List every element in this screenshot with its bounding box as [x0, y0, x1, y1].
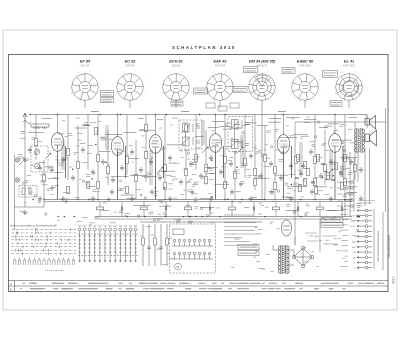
- resistor: [185, 168, 188, 175]
- svg-text:4: 4: [312, 100, 313, 102]
- capacitor: [269, 161, 273, 167]
- svg-text:5: 5: [80, 100, 81, 102]
- capacitor: [61, 157, 65, 163]
- terminal TA: [344, 193, 353, 196]
- resistor: [354, 164, 357, 171]
- resistor: [264, 154, 267, 161]
- switch label: [119, 225, 122, 227]
- resistor: [67, 148, 70, 155]
- terminal TA1: [357, 256, 372, 259]
- resistor: [324, 164, 327, 171]
- resistor: [164, 164, 167, 171]
- wire speaker feed: [362, 115, 367, 141]
- capacitor: [50, 167, 54, 173]
- svg-text:5: 5: [215, 100, 216, 102]
- capacitor: [259, 173, 263, 179]
- resistor: [274, 166, 277, 173]
- junction: [334, 216, 336, 218]
- resistor: [344, 154, 347, 161]
- switch label: [93, 225, 96, 227]
- svg-text:3: 3: [99, 91, 100, 93]
- capacitor: [150, 189, 154, 195]
- wire vertical: [164, 115, 166, 200]
- svg-text:7: 7: [206, 81, 207, 83]
- wire right feeds: [345, 148, 370, 217]
- speaker LS1: [365, 116, 376, 130]
- wire rectifier feed: [319, 219, 321, 252]
- resistor: [244, 158, 247, 165]
- capacitor: [190, 189, 194, 195]
- net label: [181, 111, 189, 113]
- resistor: [224, 156, 227, 163]
- triode/pentode section T6: [329, 134, 341, 153]
- svg-text:7: 7: [291, 81, 292, 83]
- IF transformer (dashed box): [228, 117, 253, 152]
- resistor: [224, 181, 227, 188]
- resistor: [314, 178, 317, 185]
- svg-text:EM 34 (EM 35): EM 34 (EM 35): [249, 59, 276, 64]
- capacitor: [28, 147, 32, 153]
- svg-text:2: 2: [319, 80, 320, 82]
- svg-text:62FF 5 62S: 62FF 5 62S: [343, 65, 355, 67]
- resistor: [126, 186, 129, 193]
- dial table symbol row: [14, 258, 75, 266]
- tube V4 EAF 42 envelope: [206, 72, 236, 103]
- wire vertical: [344, 115, 346, 200]
- triode/pentode section T3: [149, 135, 161, 154]
- junction: [155, 114, 157, 116]
- label box: [321, 223, 343, 228]
- capacitor: [349, 159, 353, 165]
- wire AVC rail a: [44, 199, 352, 201]
- svg-text:Netzanschlussspannungen: Netzanschlussspannungen: [376, 230, 380, 262]
- resistor: [254, 178, 257, 185]
- junction: [195, 216, 197, 218]
- svg-text:8: 8: [170, 72, 171, 74]
- tube V7 EL 41 envelope: [335, 72, 365, 103]
- svg-text:3010: 3010: [392, 276, 396, 284]
- dial cord table: [12, 228, 77, 255]
- svg-text:1: 1: [354, 72, 355, 74]
- label box small: [230, 103, 239, 108]
- switch label: [104, 225, 107, 227]
- resistor: [304, 178, 307, 185]
- wire vertical: [67, 115, 69, 181]
- IF transformer (dashed box): [179, 120, 202, 149]
- resistor: [164, 182, 167, 189]
- junction: [264, 216, 266, 218]
- dial lamp 1: [15, 158, 19, 162]
- capacitor: [189, 161, 193, 167]
- label box: [238, 251, 259, 256]
- net label: [91, 111, 99, 113]
- voltage label box (Anode 230V): [233, 87, 247, 93]
- wire tube lead: [84, 100, 86, 108]
- capacitor: [359, 167, 363, 173]
- rectifier labels: [305, 233, 338, 244]
- wire vertical: [234, 151, 236, 200]
- resistor: [205, 176, 208, 183]
- svg-text:6: 6: [291, 93, 292, 95]
- wire vertical: [354, 122, 356, 180]
- capacitor: [139, 167, 143, 173]
- svg-text:2: 2: [234, 80, 235, 82]
- junction: [126, 216, 128, 218]
- svg-text:6,3V~: 6,3V~: [351, 211, 357, 213]
- wire top-right rail: [295, 121, 386, 123]
- ground: [209, 196, 214, 201]
- terminal S: [357, 235, 372, 238]
- wire vertical: [185, 149, 187, 200]
- svg-text:62B 62A: 62B 62A: [172, 64, 181, 67]
- capacitor: [239, 181, 243, 187]
- resistor: [145, 124, 148, 131]
- resistor: [77, 161, 80, 168]
- label box: [238, 245, 259, 250]
- capacitor: [329, 159, 333, 165]
- capacitor: [270, 189, 274, 195]
- svg-text:1: 1: [310, 72, 311, 74]
- push-button switch bank: [78, 228, 138, 262]
- resistor: [195, 154, 198, 161]
- svg-text:E: E: [10, 287, 12, 291]
- terminal TA2: [357, 251, 372, 254]
- terminal 125V~: [357, 220, 372, 223]
- wire EM34 drop: [261, 100, 263, 199]
- wire vertical: [314, 115, 316, 200]
- output stage components: [295, 154, 343, 193]
- switch unit (dashed box): [170, 224, 216, 273]
- svg-text:6: 6: [116, 93, 117, 95]
- wire vertical: [126, 115, 128, 176]
- junction: [57, 114, 59, 116]
- svg-text:EAF 42: EAF 42: [213, 59, 227, 64]
- switch arrow: [237, 147, 243, 153]
- svg-text:von vorne gesehen: von vorne gesehen: [45, 270, 64, 272]
- label box: [321, 218, 343, 223]
- wire transformer leads: [273, 237, 295, 265]
- wire left stub rail: [14, 206, 44, 208]
- ground: [130, 196, 135, 201]
- capacitor: [111, 177, 115, 183]
- resistor: [87, 181, 90, 188]
- svg-text:7: 7: [162, 81, 163, 83]
- resistor: [95, 127, 98, 134]
- wire vertical: [215, 115, 217, 135]
- svg-text:4: 4: [356, 100, 357, 102]
- wire vertical: [155, 115, 157, 136]
- svg-text:3: 3: [234, 91, 235, 93]
- svg-text:8: 8: [79, 72, 80, 74]
- svg-text:2: 2: [276, 80, 277, 82]
- svg-text:7: 7: [248, 81, 249, 83]
- terminal 0: [357, 230, 372, 233]
- junction: [77, 199, 79, 201]
- wire vertical: [334, 115, 336, 135]
- wire vertical: [324, 130, 326, 185]
- capacitor: [91, 169, 95, 175]
- wire vertical: [294, 122, 296, 245]
- wire vertical: [35, 115, 37, 161]
- svg-text:4: 4: [137, 100, 138, 102]
- wire tube lead: [175, 100, 177, 108]
- junction: [314, 199, 316, 201]
- resistor: [97, 154, 100, 161]
- capacitor: [158, 175, 162, 181]
- switch arrow: [19, 159, 25, 165]
- switch label: [78, 225, 81, 227]
- resistor: [35, 138, 38, 145]
- capacitor: [101, 159, 105, 165]
- tuning capacitor: [31, 146, 48, 172]
- trap circuit box: [19, 186, 37, 198]
- svg-text:6: 6: [335, 93, 336, 95]
- component value labels: [18, 117, 363, 271]
- svg-text:EC 92: EC 92: [125, 59, 137, 64]
- svg-text:5: 5: [257, 100, 258, 102]
- switch label: [83, 225, 86, 227]
- ground: [91, 196, 96, 201]
- resistor: [97, 181, 100, 188]
- svg-text:3: 3: [276, 91, 277, 93]
- magic eye shadow sector: [257, 75, 268, 87]
- switch arrow: [327, 169, 333, 175]
- junction: [274, 199, 276, 201]
- capacitor: [289, 163, 293, 169]
- wire right lower vertical: [382, 212, 384, 270]
- junction: [224, 199, 226, 201]
- switch label: [98, 225, 101, 227]
- wire vertical: [117, 115, 119, 138]
- capacitor: [199, 173, 203, 179]
- resistor: [344, 178, 347, 185]
- resistor: [234, 171, 237, 178]
- tube V1 EF 85 envelope: [71, 72, 101, 103]
- label Drehko: [358, 201, 375, 204]
- wire vertical: [57, 115, 59, 134]
- svg-text:3: 3: [363, 91, 364, 93]
- coupling components between rails: [96, 202, 342, 217]
- resistor: [67, 186, 70, 193]
- svg-text:2: 2: [190, 80, 191, 82]
- resistor: [43, 174, 46, 181]
- wire tube lead: [304, 100, 306, 108]
- switch label: [109, 225, 112, 227]
- ground: [168, 196, 173, 201]
- wire vertical: [97, 115, 99, 200]
- svg-text:62F 625: 62F 625: [81, 65, 90, 67]
- capacitor: [249, 153, 253, 159]
- wire interconnects: [28, 125, 357, 210]
- switch label: [88, 225, 91, 227]
- wire right inner vertical: [385, 108, 387, 212]
- label box small: [206, 103, 215, 108]
- capacitor: [71, 175, 75, 181]
- resistor: [205, 164, 208, 171]
- svg-text:1: 1: [90, 72, 91, 74]
- capacitor: [219, 169, 223, 175]
- svg-text:5: 5: [300, 100, 301, 102]
- svg-text:3: 3: [144, 91, 145, 93]
- voltage label box (Kat 2V): [101, 98, 114, 103]
- voltage label box (Ua 245V / Ug2 250V): [323, 71, 338, 78]
- wire vertical: [87, 115, 89, 171]
- svg-text:7: 7: [71, 81, 72, 83]
- svg-text:1: 1: [181, 72, 182, 74]
- resistor: [126, 156, 129, 163]
- voltage label box (Anode 250V / am Chassis): [101, 91, 114, 97]
- svg-text:8: 8: [124, 72, 125, 74]
- resistor: [107, 166, 110, 173]
- wire vertical: [254, 115, 256, 191]
- parts table entries: [20, 283, 384, 289]
- terminal D+: [357, 261, 372, 264]
- speaker LS2: [365, 130, 377, 146]
- svg-text:3: 3: [319, 91, 320, 93]
- transformer labels: [265, 189, 294, 208]
- capacitor: [309, 149, 313, 155]
- capacitor: [38, 165, 42, 171]
- capacitor: [120, 165, 124, 171]
- switch arrow: [45, 153, 51, 159]
- svg-text:62FF 625A: 62FF 625A: [299, 64, 311, 67]
- svg-text:125V~: 125V~: [350, 221, 357, 223]
- svg-text:7: 7: [116, 81, 117, 83]
- wire vertical: [195, 115, 197, 171]
- junction: [97, 199, 99, 201]
- wire vertical: [14, 155, 16, 230]
- rectifier tube: [282, 220, 292, 236]
- paired wires: [62, 120, 332, 185]
- ferrite antenna coil: [31, 124, 49, 129]
- svg-text:1: 1: [225, 72, 226, 74]
- tube V2 EC 92 envelope: [116, 72, 146, 103]
- ground: [23, 210, 28, 215]
- capacitor: [209, 155, 213, 161]
- resistor: [304, 161, 307, 168]
- extra value labels: [30, 136, 348, 197]
- contact circles: [23, 132, 346, 221]
- wire vertical: [77, 125, 79, 200]
- switch label: [129, 225, 132, 227]
- junction: [117, 114, 119, 116]
- triode/pentode section T1: [51, 133, 63, 152]
- terminal TA: [344, 205, 353, 208]
- ground: [359, 196, 364, 201]
- output transformer: [355, 128, 365, 153]
- power transformer: [278, 245, 289, 274]
- terminal voltage labels: [340, 209, 348, 266]
- triode/pentode section T4: [209, 134, 221, 153]
- terminal 6,3V~: [357, 209, 372, 212]
- voltage label box (Leuchtschirm 250V): [244, 67, 258, 73]
- notes text block: [224, 215, 258, 245]
- capacitor: [149, 159, 153, 165]
- dial lamp 2: [15, 178, 19, 182]
- svg-text:7: 7: [335, 81, 336, 83]
- parts table frame: [9, 281, 389, 292]
- svg-text:Drucktastenschalter: Drucktastenschalter: [387, 235, 391, 258]
- wire tube lead: [348, 100, 350, 108]
- ground: [38, 196, 43, 201]
- svg-text:2: 2: [363, 80, 364, 82]
- switch arrow: [202, 147, 208, 153]
- svg-text:62M 627A: 62M 627A: [257, 64, 268, 67]
- tube V5 EM 34 (EM 35) envelope: [248, 72, 278, 103]
- ground: [249, 196, 254, 201]
- svg-text:ECH 81: ECH 81: [169, 59, 183, 64]
- junction: [215, 114, 217, 116]
- capacitor: [229, 161, 233, 167]
- terminal TA: [344, 181, 353, 184]
- svg-text:2: 2: [144, 80, 145, 82]
- svg-text:6: 6: [248, 93, 249, 95]
- svg-text:3: 3: [190, 91, 191, 93]
- tube V6 EABC 80 envelope: [291, 72, 321, 103]
- voltage label box (Kat 6,2V): [330, 101, 342, 107]
- terminal AB2: [357, 240, 372, 243]
- svg-text:4: 4: [92, 100, 93, 102]
- capacitor: [81, 147, 85, 153]
- triode/pentode section T2: [111, 137, 123, 156]
- svg-text:110V~: 110V~: [350, 226, 357, 228]
- net label: [278, 111, 286, 113]
- switch label: [134, 225, 137, 227]
- switch label: [124, 225, 127, 227]
- voltage label box (Gitter 1,4V / Ug2 80V): [194, 88, 208, 94]
- capacitor: [279, 175, 283, 181]
- junction: [164, 199, 166, 201]
- wire vertical: [283, 115, 285, 136]
- wire tube lead: [219, 100, 221, 108]
- wire heater rail b: [95, 218, 352, 220]
- svg-text:5: 5: [344, 100, 345, 102]
- terminal D-: [357, 266, 372, 269]
- voltage label box (Osz 95V): [171, 101, 183, 106]
- junction: [344, 199, 346, 201]
- wire heater rail a: [95, 216, 352, 218]
- svg-text:2: 2: [99, 80, 100, 82]
- wire vertical: [135, 140, 137, 200]
- wire tube lead: [129, 100, 131, 108]
- wire vertical: [205, 130, 207, 185]
- capacitor: [130, 149, 134, 155]
- terminal TA: [344, 199, 353, 202]
- resistor: [274, 182, 277, 189]
- svg-text:EL 41: EL 41: [344, 59, 354, 64]
- terminal AB1: [357, 246, 372, 249]
- wire vertical: [24, 128, 26, 207]
- ground: [61, 196, 66, 201]
- wire vertical: [224, 115, 226, 200]
- junction: [43, 199, 45, 201]
- svg-text:5: 5: [125, 100, 126, 102]
- svg-text:8: 8: [343, 72, 344, 74]
- wire vertical: [145, 115, 147, 183]
- tube cathode drops: [58, 146, 344, 200]
- svg-text:1: 1: [135, 72, 136, 74]
- terminal bracket: [373, 209, 375, 269]
- svg-text:8: 8: [299, 72, 300, 74]
- svg-text:Ausbruch abschaltbar an Druc: Ausbruch abschaltbar an Drucktastensatz …: [9, 225, 57, 228]
- antenna: [23, 113, 31, 128]
- svg-text:4: 4: [227, 100, 228, 102]
- terminal TA: [344, 187, 353, 190]
- wire vertical: [107, 130, 109, 185]
- wire bus taps: [42, 117, 357, 128]
- svg-text:62F 62F: 62F 62F: [126, 65, 135, 67]
- border frame: [9, 55, 389, 292]
